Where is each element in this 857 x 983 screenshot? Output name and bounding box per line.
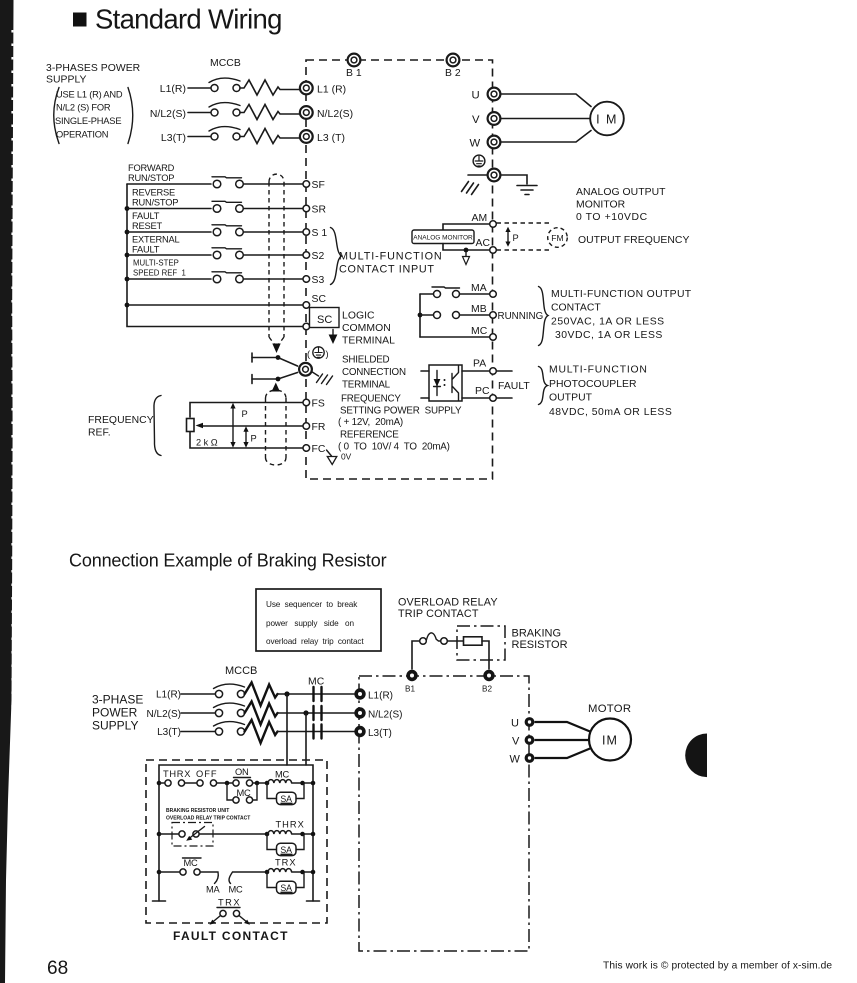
svg-text:OUTPUT FREQUENCY: OUTPUT FREQUENCY: [578, 235, 689, 246]
svg-text:S2: S2: [312, 251, 325, 262]
wire MC contact to MA hook: [200, 872, 218, 884]
wire PA stub: [496, 370, 512, 372]
wire W to motor (bottom): [535, 749, 591, 759]
SA box row A: [277, 792, 297, 804]
junction after ON: [255, 781, 260, 786]
coil MC: [268, 780, 292, 783]
svg-text:COMMON: COMMON: [342, 323, 391, 334]
wire MA to terminal: [460, 293, 490, 295]
svg-text:SUPPLY: SUPPLY: [46, 75, 87, 86]
brace multi-function contact input: [331, 228, 342, 285]
terminal FR: [303, 423, 310, 430]
surge absorber SA (row C) branch: [267, 872, 304, 888]
svg-text:MCCB: MCCB: [210, 58, 241, 69]
svg-text:MOTOR: MOTOR: [588, 703, 631, 715]
wire row B start: [159, 833, 179, 835]
svg-text:N/L2 (S) FOR: N/L2 (S) FOR: [56, 103, 111, 113]
junction AC: [464, 248, 469, 253]
contact TRX: [220, 910, 226, 916]
contact overload trip: [179, 831, 185, 837]
terminal AC: [490, 247, 497, 254]
terminal AM: [490, 221, 497, 228]
svg-text:REFERENCE: REFERENCE: [340, 430, 399, 441]
ground (777) at shield terminal: [317, 374, 333, 385]
shield arrow up: [272, 383, 280, 392]
circled earth symbol above earth terminal: [473, 155, 485, 167]
relay output common wire (left vertical): [419, 294, 421, 337]
rail end bars: [153, 900, 320, 902]
wire SR to terminal: [244, 208, 304, 210]
svg-text:FREQUENCY: FREQUENCY: [88, 415, 154, 426]
svg-text:RUN/STOP: RUN/STOP: [132, 198, 178, 208]
svg-text:I M: I M: [596, 113, 618, 127]
svg-text:REF.: REF.: [88, 428, 111, 439]
wire PA row: [462, 370, 490, 372]
svg-text:L3(T): L3(T): [368, 728, 392, 739]
wire V to motor (bottom): [535, 739, 590, 741]
MC holding contact branch: [227, 783, 257, 800]
svg-text:LOGIC: LOGIC: [342, 311, 375, 322]
svg-text:PA: PA: [473, 359, 486, 370]
wire coil THRX to rail: [292, 833, 313, 835]
braking resistor element: [464, 637, 483, 645]
svg-text:USE L1 (R) AND: USE L1 (R) AND: [56, 90, 123, 100]
wire S1 row: [127, 231, 211, 233]
svg-text:68: 68: [47, 958, 68, 979]
breaker contact N/L2: [211, 109, 218, 116]
wire U to motor (bottom): [535, 722, 591, 732]
svg-text:CONTACT: CONTACT: [551, 303, 601, 314]
wire FC row: [190, 432, 303, 448]
junction shield upper: [276, 355, 281, 360]
svg-text:0 TO +10VDC: 0 TO +10VDC: [576, 212, 648, 223]
MC contact L3: [314, 725, 322, 739]
photocoupler transistor: [452, 366, 459, 401]
svg-text:N/L2(S): N/L2(S): [317, 109, 353, 120]
coil TRX: [268, 869, 292, 872]
svg-text:BRAKING: BRAKING: [512, 628, 562, 640]
svg-text:PHOTOCOUPLER: PHOTOCOUPLER: [549, 379, 637, 390]
svg-text:FAULT: FAULT: [498, 381, 530, 392]
svg-text:BRAKING RESISTOR UNIT: BRAKING RESISTOR UNIT: [166, 808, 229, 814]
terminal B1 (bottom): [406, 670, 417, 681]
svg-text:ANALOG MONITOR: ANALOG MONITOR: [413, 235, 473, 242]
terminal B1: [348, 54, 361, 67]
terminal PA: [490, 368, 497, 375]
wire V to motor: [501, 118, 591, 120]
svg-text:30VDC, 1A OR LESS: 30VDC, 1A OR LESS: [555, 330, 663, 341]
shield oval (control wires): [269, 174, 284, 344]
svg-text:U: U: [511, 718, 519, 730]
junction rail row A: [157, 781, 162, 786]
svg-text:EXTERNAL: EXTERNAL: [132, 235, 180, 245]
control common bus (left vertical): [127, 184, 303, 327]
inverter enclosure (dashed box): [306, 60, 493, 479]
relay control box (dashed): [146, 760, 327, 923]
wire PC stub: [496, 397, 512, 399]
svg-text:This work is © protected by a: This work is © protected by a member of …: [603, 961, 832, 972]
svg-text:L1(R): L1(R): [160, 84, 186, 95]
svg-text:S 1: S 1: [312, 228, 328, 239]
wire analog monitor to AC: [443, 244, 490, 251]
junction L1 control tap: [284, 691, 289, 696]
svg-text:FR: FR: [312, 422, 326, 433]
contact ON: [233, 780, 239, 786]
svg-text:W: W: [470, 138, 481, 150]
svg-text:MC: MC: [471, 326, 488, 337]
contact MC holding: [233, 797, 239, 803]
shielded connection terminal: [299, 363, 312, 376]
svg-text:W: W: [510, 754, 521, 766]
svg-text:250VAC, 1A OR LESS: 250VAC, 1A OR LESS: [551, 317, 665, 328]
terminal L1 (R): [300, 82, 313, 95]
svg-text:N/L2(S): N/L2(S): [150, 109, 186, 120]
terminal U: [488, 88, 501, 101]
wire braking resistor to B2: [482, 641, 489, 669]
wire MB row: [420, 314, 433, 316]
frequency ref bracket: [154, 396, 161, 456]
wire SF row: [127, 183, 211, 185]
svg-text:3-PHASE: 3-PHASE: [92, 693, 143, 707]
junction rail row C: [157, 870, 162, 875]
SA box row C: [277, 881, 297, 893]
svg-text:P: P: [242, 409, 248, 419]
terminal L3 (T): [300, 130, 313, 143]
terminal FS: [303, 399, 310, 406]
control tap wires into relay box: [287, 694, 306, 765]
bracket left paren: [54, 88, 59, 144]
motor IM (bottom): [589, 719, 631, 761]
contact SR: [213, 205, 221, 213]
svg-text:FREQUENCY: FREQUENCY: [341, 394, 401, 405]
svg-text:overload relay trip contact: overload relay trip contact: [266, 637, 364, 646]
ground bars right: [517, 186, 537, 195]
contact MA: [434, 291, 441, 298]
svg-text:Use sequencer to break: Use sequencer to break: [266, 600, 358, 609]
wire row C start: [159, 871, 180, 873]
scan artifact half dot: [685, 734, 707, 778]
wire MA row: [420, 293, 433, 295]
junction ON branch: [225, 781, 230, 786]
svg-text:MA: MA: [471, 283, 487, 294]
wire W to motor: [501, 131, 592, 143]
wire contact to braking resistor: [447, 640, 463, 642]
terminal L1(R) bottom: [354, 688, 365, 699]
inverter enclosure 2 (dash-dot box): [359, 676, 529, 951]
wire L1 to terminal: [278, 693, 355, 695]
contact S2: [213, 251, 221, 259]
svg-text:MC: MC: [308, 677, 325, 688]
terminal U bottom: [525, 717, 535, 727]
junction S3: [125, 277, 130, 282]
svg-text:48VDC, 50mA OR LESS: 48VDC, 50mA OR LESS: [549, 407, 672, 418]
svg-text:B 2: B 2: [445, 68, 461, 79]
contact MC (row C): [180, 869, 186, 875]
terminal S2: [303, 252, 310, 259]
SA box row B: [277, 843, 297, 855]
svg-text:L1(R): L1(R): [156, 690, 181, 701]
wire SR row: [127, 208, 211, 210]
section heading bullet: [73, 13, 87, 27]
wire row A start: [159, 782, 165, 784]
photocoupler LED: [436, 371, 438, 396]
potentiometer wiper wire FR: [202, 425, 303, 427]
svg-text:SUPPLY: SUPPLY: [92, 719, 138, 733]
svg-text:IM: IM: [602, 734, 618, 748]
junction after TRX coil: [300, 870, 305, 875]
terminal V: [488, 112, 501, 125]
terminal PC: [490, 395, 497, 402]
junction before THRX coil: [265, 832, 270, 837]
wire N/L2 to terminal: [278, 712, 355, 714]
junction MB: [418, 313, 423, 318]
TRX lead right: [239, 916, 248, 923]
junction before MC coil: [265, 781, 270, 786]
wire MC row: [420, 336, 490, 338]
svg-text:SHIELDED: SHIELDED: [342, 355, 390, 366]
wire AM to analog monitor: [443, 224, 490, 230]
breaker contact L3: [211, 133, 218, 140]
junction S2: [125, 253, 130, 258]
terminal B2: [447, 54, 460, 67]
wire SF to terminal: [244, 183, 304, 185]
svg-text:SETTING POWER SUPPLY: SETTING POWER SUPPLY: [340, 406, 462, 417]
MCCB element L1 (bold zigzag): [245, 683, 278, 706]
wire THRX to OFF: [185, 782, 197, 784]
wire ON to coil: [253, 782, 267, 784]
junction before TRX coil: [265, 870, 270, 875]
breaker element L1 (zigzag): [240, 80, 300, 95]
svg-text:OUTPUT: OUTPUT: [549, 393, 593, 404]
0V arrow: [327, 450, 332, 456]
svg-text:B1: B1: [405, 685, 415, 694]
svg-text:TRX: TRX: [275, 858, 297, 868]
junction rail row B: [157, 832, 162, 837]
wire S2 row: [127, 254, 211, 256]
scanned page binding strip (left edge): [0, 0, 14, 983]
svg-text:N/L2(S): N/L2(S): [368, 710, 402, 721]
svg-text:SC: SC: [312, 294, 327, 305]
svg-text:MULTI-STEP: MULTI-STEP: [133, 259, 179, 268]
svg-text:OFF: OFF: [196, 769, 218, 779]
svg-text:L3(T): L3(T): [157, 727, 181, 738]
shield oval (analog wires): [266, 390, 287, 465]
svg-text:RESISTOR: RESISTOR: [512, 639, 568, 651]
svg-text:REVERSE: REVERSE: [132, 188, 175, 198]
svg-text:B2: B2: [482, 685, 492, 694]
svg-text:TERMINAL: TERMINAL: [342, 380, 391, 391]
svg-text:FC: FC: [312, 444, 326, 455]
wire SC row: [127, 304, 303, 306]
contact S3: [213, 275, 221, 283]
terminal SC: [303, 302, 310, 309]
svg-text:S3: S3: [312, 275, 325, 286]
svg-text:RESET: RESET: [132, 221, 163, 231]
MCCB contact L3: [215, 728, 222, 735]
svg-text:ON: ON: [235, 767, 249, 777]
wire earth left: [468, 174, 488, 176]
svg-text:TRX: TRX: [218, 898, 241, 908]
control circuit rails: [159, 765, 313, 901]
svg-text:FAULT CONTACT: FAULT CONTACT: [173, 929, 289, 943]
svg-text:RUN/STOP: RUN/STOP: [128, 173, 174, 183]
wire L3 to terminal: [278, 731, 355, 733]
TRX lead left: [212, 916, 221, 923]
terminal W bottom: [525, 753, 535, 763]
MC contact L1: [314, 687, 322, 701]
wire L3 row: [181, 731, 216, 733]
svg-text:L1(R): L1(R): [368, 691, 393, 702]
svg-text:MC: MC: [229, 885, 244, 895]
terminal S3: [303, 276, 310, 283]
MC contact N/L2: [314, 706, 322, 720]
breaker element L3 (zigzag): [240, 129, 300, 144]
terminal MC: [490, 334, 497, 341]
svg-text:POWER: POWER: [92, 706, 138, 720]
wire L1 row: [181, 693, 216, 695]
terminal L3(T) bottom: [354, 726, 365, 737]
svg-text:P: P: [251, 434, 257, 444]
svg-text:SA: SA: [280, 794, 292, 804]
svg-text:L1 (R): L1 (R): [317, 85, 346, 96]
earth terminal: [488, 169, 501, 182]
wire B1 to overload contact: [412, 641, 420, 669]
contact OFF: [197, 780, 203, 786]
analog monitor box: [412, 230, 474, 244]
contact S1: [213, 228, 221, 236]
svg-text:FAULT: FAULT: [132, 245, 160, 255]
wire PC row: [462, 397, 490, 399]
junction after MC coil: [300, 781, 305, 786]
shield drain wires: [252, 358, 298, 380]
svg-text:THRX: THRX: [163, 769, 191, 779]
svg-text:TRIP CONTACT: TRIP CONTACT: [398, 608, 479, 620]
svg-text:SF: SF: [312, 180, 325, 191]
photocoupler U1 box: [429, 365, 462, 401]
svg-text:0V: 0V: [341, 452, 352, 462]
wire coil TRX to rail: [292, 871, 313, 873]
svg-text:SPEED REF 1: SPEED REF 1: [133, 269, 186, 278]
svg-text:FS: FS: [312, 399, 325, 410]
svg-text:MCCB: MCCB: [225, 665, 257, 677]
svg-text:TERMINAL: TERMINAL: [342, 336, 395, 347]
surge absorber SA (row A) branch: [267, 783, 304, 799]
ground lead from shield terminal: [312, 372, 319, 377]
terminal B2 (bottom): [483, 670, 494, 681]
terminal SF: [303, 181, 310, 188]
breaker element N/L2 (zigzag): [240, 105, 300, 120]
svg-text:power supply side on: power supply side on: [266, 619, 355, 628]
svg-text:AC: AC: [476, 238, 491, 249]
junction N/L2 control tap: [303, 710, 308, 715]
wire earth right: [500, 175, 527, 184]
svg-text:SINGLE-PHASE: SINGLE-PHASE: [55, 116, 121, 126]
svg-text:AM: AM: [472, 213, 488, 224]
svg-text:Connection Example of Braking: Connection Example of Braking Resistor: [69, 551, 387, 571]
overload relay trip contact: [420, 638, 427, 645]
surge absorber SA (row B) branch: [267, 834, 304, 850]
svg-text:MB: MB: [471, 304, 487, 315]
terminal V bottom: [525, 735, 535, 745]
bracket right paren: [128, 88, 133, 144]
terminal S1: [303, 229, 310, 236]
motor IM: [590, 102, 624, 136]
svg-text:THRX: THRX: [276, 820, 305, 830]
svg-text:): ): [326, 349, 329, 359]
svg-text:SC: SC: [317, 314, 332, 326]
photocoupler left leads: [421, 371, 429, 398]
shield arrow down: [272, 344, 280, 354]
svg-text:( + 12V, 20mA): ( + 12V, 20mA): [338, 417, 403, 428]
wire U to motor: [501, 94, 592, 107]
svg-text:SA: SA: [280, 883, 292, 893]
svg-text:L3 (T): L3 (T): [317, 133, 345, 144]
wire MB to terminal: [460, 314, 490, 316]
terminal FC: [303, 445, 310, 452]
terminal SC (logic common): [303, 323, 310, 330]
wire S2 to terminal: [244, 254, 304, 256]
terminal MA: [490, 291, 497, 298]
svg-text:CONTACT INPUT: CONTACT INPUT: [339, 264, 435, 276]
svg-text:3-PHASES POWER: 3-PHASES POWER: [46, 63, 141, 74]
junction SR: [125, 206, 130, 211]
wire FS row: [190, 403, 303, 418]
twisted pair marker P (FR-FC): [245, 429, 247, 445]
svg-text:MULTI-FUNCTION: MULTI-FUNCTION: [339, 251, 443, 263]
svg-text:SA: SA: [280, 845, 292, 855]
svg-text:L3(T): L3(T): [161, 133, 186, 144]
svg-text:V: V: [472, 114, 480, 126]
svg-text:OVERLOAD RELAY TRIP CONTACT: OVERLOAD RELAY TRIP CONTACT: [166, 816, 250, 822]
ground (777) left: [462, 182, 479, 195]
junction shield lower: [276, 377, 281, 382]
svg-text:P: P: [513, 233, 519, 243]
wire S3 to terminal: [244, 278, 304, 280]
terminal W: [488, 136, 501, 149]
MCCB contact N/L2: [215, 709, 222, 716]
wire coil MC to rail: [292, 782, 313, 784]
coil THRX: [268, 831, 292, 834]
MCCB element L3 (bold zigzag): [245, 720, 278, 743]
dashed link AM/AC to FM meter: [497, 223, 552, 250]
MC hook return: [229, 872, 267, 884]
contact MB: [434, 312, 441, 319]
brace multi-function output: [539, 287, 549, 346]
terminal SR: [303, 205, 310, 212]
svg-text:( 0 TO 10V/ 4 TO 20mA): ( 0 TO 10V/ 4 TO 20mA): [338, 442, 450, 453]
twisted pair marker P (FS-FC): [232, 406, 234, 445]
FM frequency meter (dashed circle): [548, 228, 568, 248]
MCCB contact L1: [215, 690, 222, 697]
brace photocoupler output: [539, 367, 548, 405]
sequencer note box: [256, 589, 381, 651]
ground arrow below AC: [465, 252, 467, 257]
svg-text:U: U: [472, 90, 480, 102]
overload trip contact box (dash-dot): [172, 823, 213, 847]
svg-text:MONITOR: MONITOR: [576, 200, 626, 211]
svg-text:MULTI-FUNCTION: MULTI-FUNCTION: [549, 365, 648, 376]
wire L1 to breaker: [188, 87, 211, 89]
svg-text:MC: MC: [184, 858, 199, 868]
svg-text:CONNECTION: CONNECTION: [342, 367, 406, 378]
contact THRX: [165, 780, 171, 786]
junction SC: [125, 303, 130, 308]
breaker contact L1 (circle pair + arc): [211, 85, 218, 92]
potentiometer 2kOhm body: [187, 419, 195, 432]
wire N/L2 to breaker: [188, 112, 211, 114]
junction S1: [125, 230, 130, 235]
junction after THRX coil: [300, 832, 305, 837]
